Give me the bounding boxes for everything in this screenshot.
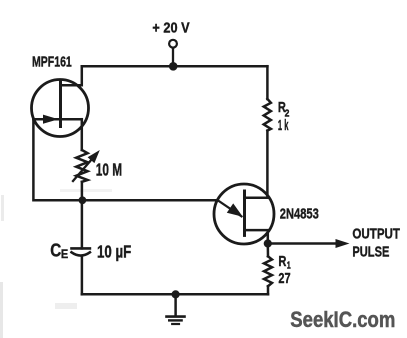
svg-text:C: C xyxy=(50,241,61,261)
svg-text:SeekIC.com: SeekIC.com xyxy=(290,307,395,332)
svg-text:10 µF: 10 µF xyxy=(97,241,132,261)
svg-text:10 M: 10 M xyxy=(96,159,122,179)
svg-text:MPF161: MPF161 xyxy=(32,53,72,70)
svg-text:R: R xyxy=(278,253,286,270)
svg-text:E: E xyxy=(61,247,68,261)
svg-text:OUTPUT: OUTPUT xyxy=(352,225,400,242)
svg-text:PULSE: PULSE xyxy=(352,243,389,260)
svg-text:+ 20 V: + 20 V xyxy=(152,20,189,36)
svg-text:1 k: 1 k xyxy=(278,117,289,134)
svg-text:27: 27 xyxy=(278,270,290,287)
svg-text:2N4853: 2N4853 xyxy=(280,205,319,222)
